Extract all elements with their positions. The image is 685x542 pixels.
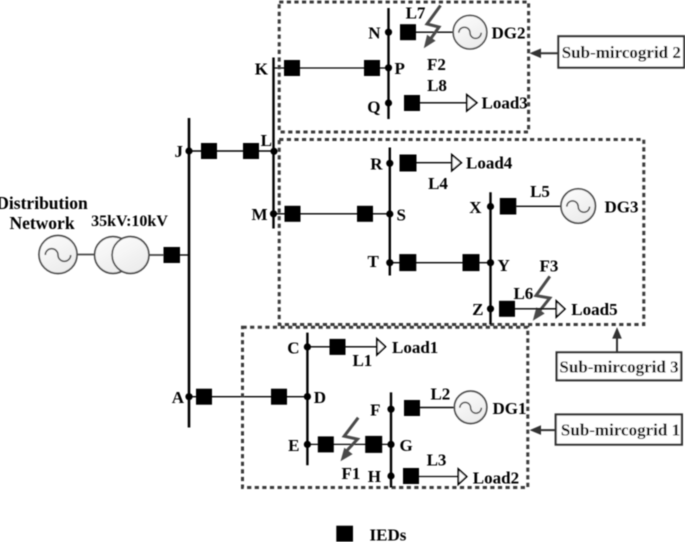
svg-text:S: S [397, 205, 406, 224]
wire Z to Load5 [515, 308, 556, 310]
svg-text:H: H [368, 467, 381, 486]
legend IED symbol [336, 526, 353, 542]
AC source: utility grid [39, 236, 77, 274]
svg-text:L2: L2 [430, 385, 450, 404]
fault F3 lightning [533, 276, 550, 320]
svg-text:Sub-mircogrid 3: Sub-mircogrid 3 [559, 358, 678, 377]
svg-text:X: X [469, 198, 482, 217]
IED on wire E-G #1 [318, 436, 334, 452]
wire H to Load2 [419, 476, 458, 478]
IED on wire E-G #2 [365, 436, 382, 453]
svg-text:L: L [261, 131, 272, 150]
bus K-L-M [272, 58, 274, 229]
svg-text:Load4: Load4 [466, 154, 513, 173]
IED on feeder L3 [403, 468, 419, 484]
svg-text:Distribution: Distribution [0, 193, 88, 213]
svg-text:F: F [370, 401, 380, 420]
svg-text:N: N [368, 24, 381, 43]
transformer 35kV:10kV [95, 237, 149, 274]
svg-text:L5: L5 [530, 182, 550, 201]
arrow callout 2 [530, 49, 559, 59]
sub-microgrid 1 dashed boundary [243, 327, 528, 487]
node S [386, 210, 393, 217]
svg-text:Load3: Load3 [482, 93, 528, 112]
sub-microgrid 3 callout box [557, 352, 682, 380]
node Q [385, 99, 392, 106]
IED on wire T-Y #2 [463, 254, 480, 271]
node Z [487, 305, 494, 312]
wire J-L [189, 150, 274, 152]
bus C-D-E [306, 333, 308, 466]
wire K-P [274, 67, 389, 69]
svg-text:C: C [287, 338, 299, 357]
IED on wire K-P #1 [284, 60, 300, 76]
load3 arrow [467, 95, 477, 111]
IED on wire A-D #2 [271, 389, 287, 405]
svg-text:J: J [175, 142, 184, 161]
svg-text:L8: L8 [427, 76, 447, 95]
fault F2 lightning [424, 6, 441, 49]
DG2 generator [453, 15, 487, 49]
IED on feeder L1 [330, 339, 346, 355]
svg-text:L4: L4 [428, 174, 448, 193]
wire X to DG3 [516, 205, 561, 207]
sub-microgrid 1 callout box [556, 415, 682, 445]
svg-text:F2: F2 [427, 55, 446, 74]
svg-text:T: T [367, 252, 379, 271]
node Y [487, 259, 494, 266]
IED on feeder L7 [400, 24, 416, 40]
svg-text:Z: Z [472, 300, 483, 319]
svg-text:DG1: DG1 [493, 399, 527, 418]
node P [385, 64, 392, 71]
arrow callout 1 [530, 425, 556, 435]
svg-text:L1: L1 [352, 351, 372, 370]
bus R-S-T [389, 148, 391, 276]
load4 arrow [452, 155, 462, 171]
svg-text:E: E [288, 436, 299, 455]
node N [385, 29, 392, 36]
IED on feeder L5 [500, 198, 517, 215]
node T [386, 259, 393, 266]
wire C to Load1 [307, 346, 377, 348]
fault F1 lightning [341, 418, 359, 462]
svg-text:DG3: DG3 [605, 198, 639, 217]
IED on feeder L6 [499, 301, 515, 317]
wire A-D [189, 396, 308, 398]
wire E-G [307, 443, 391, 445]
wire source to transformer [77, 254, 95, 256]
arrow callout 3 [612, 327, 622, 352]
svg-text:Network: Network [9, 213, 74, 233]
wire M-S [274, 213, 391, 215]
IED on wire M-S #1 [285, 206, 301, 222]
svg-text:Q: Q [367, 98, 380, 117]
IED on wire J-L #1 [201, 143, 217, 159]
DG3 generator [561, 189, 595, 223]
sub-microgrid 2 callout box [558, 36, 684, 67]
IED on wire K-P #2 [364, 60, 380, 76]
node E [304, 441, 311, 448]
svg-text:R: R [370, 155, 383, 174]
IED on wire A-D #1 [196, 389, 212, 405]
node L [270, 148, 277, 155]
node J [185, 147, 192, 154]
node M [270, 210, 277, 217]
node A [185, 393, 192, 400]
svg-text:M: M [251, 205, 267, 224]
svg-text:Y: Y [498, 256, 510, 275]
svg-text:A: A [172, 388, 185, 407]
IED on transformer feeder [164, 247, 181, 263]
wire transformer to IED [149, 254, 164, 256]
load1 arrow [377, 339, 386, 355]
svg-text:35kV:10kV: 35kV:10kV [91, 213, 168, 230]
svg-text:P: P [395, 59, 405, 78]
load2 arrow [458, 469, 466, 484]
wire IED to main bus [180, 254, 190, 256]
svg-text:K: K [255, 59, 269, 78]
wire N to DG2 [416, 31, 453, 33]
node H [387, 472, 394, 479]
node F [387, 406, 394, 413]
wire Q to Load3 [420, 102, 467, 104]
svg-text:Load5: Load5 [571, 300, 617, 319]
wire T-Y [390, 262, 491, 264]
svg-text:G: G [400, 436, 413, 455]
IED on wire T-Y #1 [399, 254, 416, 271]
svg-text:F1: F1 [341, 464, 360, 483]
IED on feeder L8 [404, 95, 420, 111]
svg-text:IEDs: IEDs [370, 525, 407, 542]
node X [487, 203, 494, 210]
sub-microgrid 3 dashed boundary [279, 140, 644, 325]
wire F to DG1 [420, 407, 455, 409]
IED on feeder L2 [404, 400, 420, 416]
svg-text:L7: L7 [406, 4, 426, 23]
svg-text:Load1: Load1 [392, 338, 438, 357]
IED on wire M-S #2 [357, 206, 373, 222]
svg-text:D: D [314, 388, 326, 407]
IED on wire J-L #2 [243, 143, 259, 159]
label: Distribution Network [0, 193, 88, 233]
sub-microgrid 2 dashed boundary [279, 2, 528, 132]
node R [386, 160, 393, 167]
wire R to Load4 [417, 162, 452, 164]
svg-text:Sub-mircogrid 1: Sub-mircogrid 1 [561, 421, 680, 440]
bus X-Y-Z [489, 192, 491, 324]
node D [304, 393, 311, 400]
IED on feeder L4 [400, 155, 417, 172]
main bus J-A [188, 118, 191, 428]
node C [304, 343, 311, 350]
node G [387, 441, 394, 448]
load5 arrow [556, 301, 565, 317]
svg-text:F3: F3 [540, 257, 559, 276]
svg-text:L6: L6 [513, 284, 533, 303]
bus F-G-H [390, 392, 392, 487]
svg-text:DG2: DG2 [492, 24, 526, 43]
bus N-P-Q [387, 8, 389, 119]
svg-text:Load2: Load2 [473, 469, 519, 488]
DG1 generator [454, 391, 486, 423]
svg-text:Sub-mircogrid 2: Sub-mircogrid 2 [562, 43, 681, 62]
svg-text:L3: L3 [427, 450, 447, 469]
